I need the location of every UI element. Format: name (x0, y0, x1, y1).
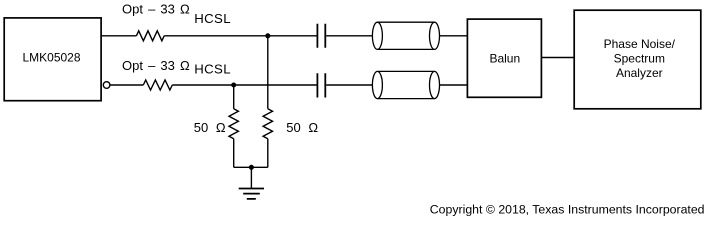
node: junction bottom rail / R4 tap (231, 83, 236, 88)
capacitor C2 (series, bottom) (317, 73, 325, 97)
svg-text:LMK05028: LMK05028 (22, 51, 80, 65)
resistor R4 (50 ohm termination, left) (229, 109, 238, 139)
balun T1 box (467, 19, 541, 97)
wire: coax W2 to balun (440, 84, 468, 86)
wire: termination bus (234, 166, 268, 168)
coax cable W2 (bottom cylinder) (372, 71, 439, 98)
svg-text:50 Ω: 50 Ω (286, 120, 318, 135)
svg-text:Phase Noise/: Phase Noise/ (604, 37, 676, 51)
wire: U1 top output to R1 (101, 35, 136, 37)
instrument box: Phase Noise / Spectrum Analyzer (574, 10, 701, 109)
wire: R1 to capacitor C1 (164, 35, 317, 37)
node: ground junction (249, 165, 254, 170)
wire: balun output to analyzer (541, 57, 574, 59)
svg-text:Opt – 33 Ω: Opt – 33 Ω (122, 2, 190, 17)
svg-text:Analyzer: Analyzer (616, 66, 663, 80)
wire: R3 to termination bus (267, 139, 269, 168)
inversion bubble on U1 bottom output (103, 82, 110, 89)
svg-text:HCSL: HCSL (194, 11, 231, 26)
svg-text:Opt – 33 Ω: Opt – 33 Ω (122, 58, 190, 73)
ground symbol (239, 189, 264, 199)
resistor R2 (series Opt 33 ohm, bottom) (143, 80, 172, 90)
resistor R1 (series Opt 33 ohm, top) (136, 31, 164, 41)
svg-text:Balun: Balun (489, 51, 520, 65)
coax cable W1 (top cylinder) (372, 22, 439, 49)
resistor R3 (50 ohm termination, right) (263, 109, 272, 139)
svg-text:Spectrum: Spectrum (614, 51, 665, 65)
wire: R4 to termination bus (233, 139, 235, 168)
svg-text:Copyright © 2018, Texas Instru: Copyright © 2018, Texas Instruments Inco… (430, 202, 705, 216)
capacitor C1 (series, top) (317, 24, 325, 48)
wire: C1 to coax (top) (326, 35, 372, 37)
IC U1 LMK05028 box (4, 18, 101, 101)
wire: coax W1 to balun (440, 35, 468, 37)
svg-text:HCSL: HCSL (194, 62, 231, 77)
wire: ground stub (250, 167, 252, 188)
wire: bubble to R2 (110, 84, 143, 86)
node: junction top rail / R3 tap (265, 33, 270, 38)
wire: bottom rail tap down to R4 (233, 85, 235, 109)
wire: C2 to coax (bottom) (326, 84, 372, 86)
wire: R2 to capacitor C2 (172, 84, 317, 86)
wire: top rail tap down to R3 (crosses bottom rail) (267, 36, 269, 109)
svg-text:50 Ω: 50 Ω (194, 120, 226, 135)
